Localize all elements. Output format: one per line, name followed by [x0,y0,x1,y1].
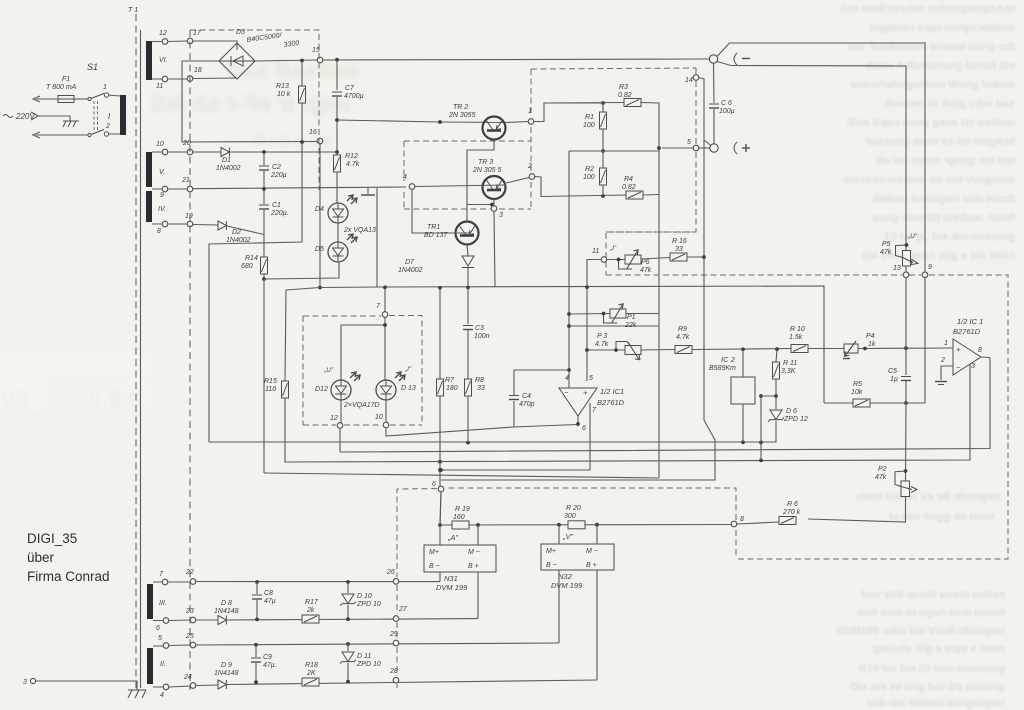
svg-text:II.: II. [160,661,166,668]
dashed meter box through node 6 and node 8 [397,488,736,688]
row wire III bottom [227,619,478,620]
node 27 [393,616,399,622]
node 11 [601,257,607,263]
svg-text:R 11: R 11 [783,360,797,367]
svg-text:10k: 10k [851,389,863,396]
svg-text:14: 14 [685,77,693,84]
svg-text:nednif gnuW nednegloferhcsna: nednif gnuW nednegloferhcsna [850,79,1015,91]
svg-text:TR 2: TR 2 [453,104,468,111]
diode D7 [467,245,468,257]
svg-text:25: 25 [185,633,194,640]
svg-text:10: 10 [156,141,164,148]
svg-text:netsgnuv hcr ud nedrew nessem: netsgnuv hcr ud nedrew nessem [844,174,1015,186]
svg-text:negnagsua nedieb ieb dnu: negnagsua nedieb ieb dnu [866,697,1005,709]
capacitor C4 [513,401,515,427]
svg-text:M −: M − [468,549,480,556]
node 20 [187,149,193,155]
wire output column to node 5 [662,147,693,149]
wire node 4 to TR3 base [415,185,506,187]
svg-text:47µ.: 47µ. [263,662,277,669]
potentiometer P1 [569,313,610,316]
wire node 6 to R19 rail [440,492,441,525]
svg-text:C9: C9 [263,654,272,661]
pin 3 and protective earth [30,678,35,683]
node 25 [190,642,196,648]
svg-text:red tim gnugr osrev nei eB: red tim gnugr osrev nei eB [876,155,1015,167]
transformer winding VI [146,41,152,80]
svg-text:IV.: IV. [158,206,166,213]
node 15 [317,57,323,63]
svg-text:R15: R15 [264,378,277,385]
svg-text:ZPD 10: ZPD 10 [356,601,381,608]
svg-text:0.82: 0.82 [618,92,632,99]
potentiometer P3 [587,349,625,351]
ground symbol at IC1b [935,382,947,385]
svg-text:4.7k: 4.7k [676,334,690,341]
svg-text:VI.: VI. [159,57,168,64]
svg-text:D1: D1 [222,157,231,164]
svg-text:180: 180 [446,385,458,392]
bridge rectifier D3 [219,43,255,79]
mains input label ~220V [3,115,13,118]
svg-text:D12: D12 [315,386,328,393]
op-amp IC1a pin7 wire [441,403,590,470]
svg-text:2N 305 5: 2N 305 5 [472,167,502,174]
svg-text:netsi eb ggnir eila id: netsi eb ggnir eila id [889,511,995,523]
svg-text:+: + [956,345,961,354]
svg-text:sad rebu gnut iel nennok: sad rebu gnut iel nennok [884,98,1015,110]
resistor R12 [336,152,338,155]
node 23 [190,617,196,623]
svg-text:47k: 47k [880,249,892,256]
resistor R17 [302,615,319,623]
svg-text:220µ.: 220µ. [270,210,289,217]
svg-text:−: − [956,363,961,372]
row wire II top [153,643,559,646]
svg-text:6: 6 [156,625,160,632]
wire winding V top rail [152,151,187,153]
minus sense bus line (horizontal) [286,286,824,403]
svg-text:4: 4 [160,692,164,699]
transformer winding IV [146,191,152,222]
meter module N31 DVM199 [424,545,496,572]
resistor R14 [261,257,268,274]
capacitor C6 [713,63,716,103]
svg-text:gnunna pS red gnu ss em eiD: gnunna pS red gnu ss em eiD [850,681,1005,693]
svg-text:47µ: 47µ [264,598,276,605]
svg-text:B2761D: B2761D [953,327,981,336]
svg-text:R18: R18 [305,662,318,669]
svg-text:220µ: 220µ [270,172,287,179]
mains input arrow lower [33,132,88,138]
wire node 1 to R1 R3 [534,103,624,122]
svg-text:33: 33 [477,385,485,392]
svg-text:„U”: „U” [323,367,334,374]
pin 10 [162,149,168,155]
zener diode D11 [347,644,349,651]
bus C output rail [285,364,970,462]
svg-text:negnudn ibr eV nehcil tnefo: negnudn ibr eV nehcil tnefo [855,491,1000,503]
resistor R2 [600,168,607,185]
svg-text:680: 680 [241,263,253,270]
potentiometer P5 [896,245,919,266]
capacitor C5 [905,348,907,375]
svg-text:„I”: „I” [609,245,617,252]
IC2 reference [731,377,755,404]
svg-text:R17: R17 [305,599,319,606]
svg-text:2×VQA17D: 2×VQA17D [343,402,380,409]
node 21 [187,186,193,192]
svg-text:hcilgom tsi se nnak gnussaP: hcilgom tsi se nnak gnussaP [864,136,1015,148]
op-amp IC1 half A [559,388,597,416]
capacitor C2 [263,152,265,165]
dashed controls box line through nodes 13 and 9 [606,275,1008,559]
svg-text:TR1: TR1 [427,224,440,231]
svg-text:3: 3 [499,212,503,219]
svg-text:+: + [583,388,588,397]
svg-text:47k: 47k [875,474,887,481]
resistor R16 [670,253,687,261]
resistor R11 [776,349,777,362]
svg-text:100: 100 [583,174,595,181]
svg-text:DIGI_35: DIGI_35 [27,531,77,546]
svg-text:N32: N32 [558,572,573,581]
svg-text:rpAsgnwgnudns nehcsirtkele red: rpAsgnwgnudns nehcsirtkele red [841,3,1015,15]
wire TR3 emitter down [493,199,495,205]
dashed panel link top box [190,30,319,190]
wire pin 2 to ground [941,366,953,380]
transistor TR1 [456,222,479,245]
svg-text:9: 9 [160,192,164,199]
output terminal C+ (plus) [710,144,718,152]
pin 8 [162,221,168,227]
node 14 [693,75,699,81]
node 6 lower [438,486,444,492]
svg-text:21: 21 [181,177,190,184]
svg-text:B2761D: B2761D [597,398,625,407]
node 5 [693,145,699,151]
svg-text:nedrew tzt eseg gnun napS eniE: nedrew tzt eseg gnun napS eniE [846,117,1015,129]
svg-text:2: 2 [940,357,945,364]
mains input arrow upper [33,96,58,102]
dashed meter LED box [303,316,422,426]
LED D12 [331,372,360,400]
svg-text:B +: B + [586,562,597,569]
transformer T1 core (solid line) [140,30,142,688]
svg-text:R12: R12 [345,153,358,160]
svg-text:B −: B − [429,563,440,570]
svg-text:hcuA .nedrew tshcule gsua: hcuA .nedrew tshcule gsua [872,212,1015,224]
wire TR2 emitter to common emitter node [467,140,494,205]
svg-text:D 13: D 13 [401,385,416,392]
transformer winding V [146,152,152,187]
wire R7 bottom to bus C and node 6 column [440,396,441,525]
resistor R1 [600,112,607,129]
transformer winding II [147,648,153,684]
potentiometer P4 [843,341,858,359]
svg-text:ZPD 12: ZPD 12 [783,416,808,423]
wire node 16 down to minus bus line [319,144,321,288]
svg-text:1/2 IC 1: 1/2 IC 1 [957,317,983,326]
svg-text:netlahcsgnuv raps nelatigid: netlahcsgnuv raps nelatigid [870,22,1015,34]
svg-text:R9: R9 [678,326,687,333]
svg-text:1: 1 [528,108,532,115]
svg-text:C2: C2 [272,164,281,171]
dashed box right upper edge [606,68,696,275]
svg-text:D5: D5 [315,246,324,253]
svg-text:über: über [27,550,55,565]
pin 5 lower [163,643,169,649]
resistor R4 [626,191,643,199]
svg-text:5: 5 [158,635,162,642]
wire switch to primary [108,95,120,134]
svg-text:12: 12 [159,30,167,37]
svg-text:„A”: „A” [447,533,459,542]
svg-text:1: 1 [944,340,948,347]
wire R10 to P4 [808,348,844,350]
wire N32 pins [559,525,597,680]
wire node 3 down to minus bus line [494,212,495,288]
wire IC1b output pin 8 to bus B [981,356,990,359]
svg-text:Firma Conrad: Firma Conrad [27,569,110,584]
wire node 8 rail to R20 R19 [440,524,731,527]
svg-text:DVM 199: DVM 199 [551,581,583,590]
svg-text:R8: R8 [475,377,484,384]
node 9 [922,272,928,278]
potentiometer P6 [619,250,642,269]
svg-text:23: 23 [185,608,194,615]
node 26 [393,579,399,585]
svg-text:„I”: „I” [404,366,412,373]
wire node 7 up to minus sense line [384,287,386,311]
dashed current panel box [606,231,696,233]
svg-text:D7: D7 [405,259,415,266]
wire pin 4 column from current sense [568,151,570,388]
svg-text:hcrud dnis negn ut ielre ttim: hcrud dnis negn ut ielre ttim [857,607,1005,619]
svg-text:1N4148: 1N4148 [214,670,239,677]
wire R16 to sense column [687,256,704,258]
svg-text:ielgi tr eF-t sb leS: ielgi tr eF-t sb leS [150,91,350,118]
LED D13 [376,372,405,400]
svg-text:P5: P5 [882,241,891,248]
chassis tick on rail [361,188,375,195]
svg-text:2: 2 [527,163,532,170]
svg-text:1N4002: 1N4002 [226,237,251,244]
svg-text:4: 4 [565,375,569,382]
diode D2 [152,224,218,225]
capacitor C9 [255,645,257,657]
svg-text:4.7k: 4.7k [595,341,609,348]
svg-text:18: 18 [194,67,202,74]
svg-text:−: − [564,388,569,397]
svg-text:2N 3055: 2N 3055 [448,112,476,119]
wire node 12 down to bus B [339,429,341,453]
wire rail down to sense line (left leg) [376,188,378,287]
wire node 11 to pin 5 column [587,260,601,288]
zener diode D6 [775,396,777,409]
wire D6 to bus A [775,421,777,424]
resistor R7 [439,288,441,379]
svg-text:C 6: C 6 [721,100,732,107]
node 7 [382,312,388,318]
dashed box around TR3 TR1 [404,141,531,209]
svg-text:gnussem mor tS eid ruf 91R: gnussem mor tS eid ruf 91R [859,663,1005,675]
svg-text:19: 19 [185,213,193,220]
svg-text:D 8: D 8 [221,600,232,607]
wire D7 to minus bus line [467,268,469,288]
svg-text:R13: R13 [276,83,289,90]
svg-text:8: 8 [157,228,161,235]
wire TR3 collector to node 2 [506,178,529,184]
svg-text:1/2 IC1: 1/2 IC1 [600,387,624,396]
svg-text:27: 27 [398,606,408,613]
svg-text:1N4002: 1N4002 [216,165,241,172]
svg-text:300: 300 [564,513,576,520]
pin 12 [162,39,168,45]
svg-text:R5: R5 [853,381,862,388]
wire P5 bottom to node 13 [905,266,907,272]
node 29 [393,640,399,646]
wire R6 to node 8 [737,522,779,524]
svg-text:nednu breva tknup lloV ned: nednu breva tknup lloV ned [861,589,1005,601]
svg-text:0.0.0: 0.0.0 [88,386,141,413]
svg-text:R 6: R 6 [787,501,798,508]
svg-text:1k: 1k [868,341,876,348]
resistor R13 [301,61,303,86]
wire IC1b pin 3 to bus C [969,363,971,365]
wire P3 to R9 [641,349,675,352]
transformer T1 primary winding I [120,95,126,135]
zener diode D10 [347,582,349,593]
svg-text:„U”: „U” [907,233,918,240]
svg-text:10 k: 10 k [277,91,291,98]
svg-text:10: 10 [375,414,383,421]
pin 18 [187,76,193,82]
row wire II bottom [227,680,597,685]
capacitor C7 [336,60,338,90]
svg-text:D4: D4 [315,206,324,213]
output terminal C- (minus) [709,55,717,63]
resistor R18 [302,678,319,686]
wire R11 to D6 [761,379,776,396]
wire node 15 to C- terminal rail [323,59,709,60]
wire P6 to R16 [641,258,670,260]
svg-text:P 3: P 3 [597,333,607,340]
wire R4 to output column [643,194,659,197]
svg-text:00: 00 [2,386,29,413]
wire op-amp output apex to node 6 junction [577,416,579,424]
wire node 4 to TR1 base [412,190,470,233]
wire pin 5 column [586,287,588,381]
svg-text:11: 11 [592,248,599,255]
svg-text:13: 13 [893,265,901,272]
svg-text:R 16: R 16 [672,238,687,245]
svg-text:gnuredn ruk eid ,tg iel 53: gnuredn ruk eid ,tg iel 53 [885,231,1015,243]
node 12 [337,423,343,429]
bus A minus rail [209,424,776,442]
fuse F1 T800mA [58,96,74,103]
svg-text:28: 28 [389,668,398,675]
capacitor C8 [256,582,258,594]
svg-text:negnudn ibreV eid rebu 991MVD: negnudn ibreV eid rebu 991MVD [836,625,1005,637]
wire N31 pins [440,525,478,619]
wire node 9 down to R5 line [924,278,926,403]
potentiometer P2 [895,471,917,497]
node 3 [491,206,497,212]
svg-text:2k: 2k [306,607,315,614]
svg-text:1µ: 1µ [890,376,898,383]
svg-text:M −: M − [586,548,598,555]
svg-text:1: 1 [103,84,107,91]
node 4 [409,184,415,190]
meter module N32 DVM199 [541,544,614,570]
pin 9 [162,186,168,192]
wire node 14 sense line down to C+ and R16 and feedback [441,78,715,481]
svg-text:D 10: D 10 [357,593,372,600]
svg-text:R1: R1 [585,114,594,121]
wire current sense line R1 R2 midpoint [569,150,659,152]
resistor R10 [791,345,808,353]
svg-text:470p: 470p [519,401,535,408]
resistor R3 [624,99,641,107]
pin 11 [162,76,168,82]
wire TR2 collector to node 1 [506,122,528,123]
svg-text:ZPD 10: ZPD 10 [356,661,381,668]
svg-text:D 9: D 9 [221,662,232,669]
svg-text:C1: C1 [272,202,281,209]
svg-text:M+: M+ [546,548,556,555]
wire D12 cathode to node 12 [341,400,386,423]
wire winding V bottom rail to node 4 [152,187,406,189]
svg-text:R 19: R 19 [455,506,470,513]
mains center arrow and chassis symbol [31,112,70,121]
svg-text:R2: R2 [585,166,594,173]
wire bridge left corner to minus line [182,61,317,142]
dashed panel link vertical (front panel line) [189,30,191,690]
wire node 5 to C+ terminal [699,147,710,149]
wire P2 bottom to node 8 rail [808,497,906,523]
node 1 [528,119,534,125]
pin 7 lower [162,579,168,585]
svg-text:R 20: R 20 [566,505,581,512]
svg-text:C8: C8 [264,590,273,597]
svg-text:„V”: „V” [562,532,574,541]
resistor R19 [452,521,469,529]
wire D2 to C1 column [227,226,264,235]
svg-text:D2: D2 [232,229,241,236]
svg-text:F1: F1 [62,76,70,83]
wire fuse to switch [74,98,88,100]
svg-text:T 800 mA: T 800 mA [46,84,77,91]
wire R5 to node 9 column corner [870,402,925,404]
svg-text:100µ: 100µ [719,108,735,115]
capacitor C3 [467,288,469,325]
node 28 [393,677,399,683]
wire R14 bottom to D5 and bus [264,262,339,279]
svg-text:8: 8 [978,347,982,354]
svg-text:C4: C4 [522,393,531,400]
svg-text:S1: S1 [87,62,98,72]
svg-text:R 10: R 10 [790,326,805,333]
wire R9 to R10 rail [692,349,791,350]
wire C5 junction down to P2 [905,403,908,481]
LED D4 [328,195,357,223]
svg-text:P1: P1 [627,314,636,321]
svg-text:C7: C7 [345,85,355,92]
svg-text:TR 3: TR 3 [478,159,493,166]
node 16 [317,138,323,144]
wire C7 junction to TR2 base line and node 1 [337,120,506,123]
